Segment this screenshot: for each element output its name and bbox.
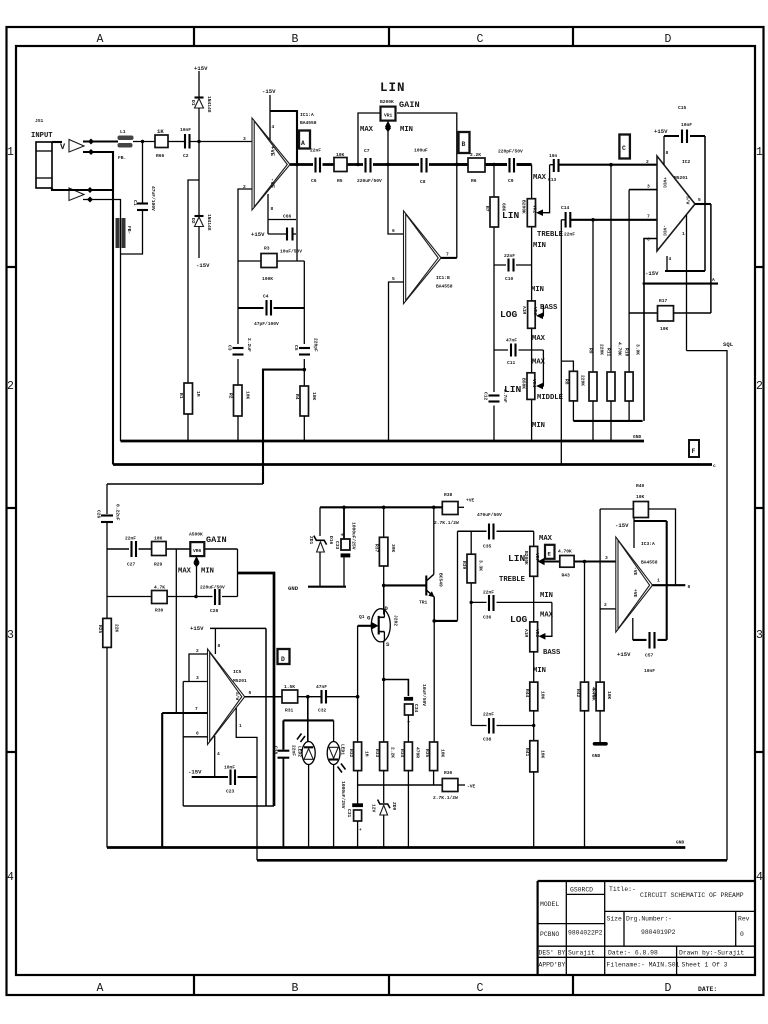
wire ring upper to vertical bbox=[83, 152, 113, 465]
resistor R10 bbox=[625, 372, 633, 401]
capacitor C2 bbox=[184, 134, 186, 149]
svg-text:MIN: MIN bbox=[533, 242, 546, 250]
capacitor C18 bbox=[278, 750, 290, 752]
svg-text:TR1: TR1 bbox=[419, 600, 428, 606]
svg-text:1: 1 bbox=[682, 231, 685, 237]
svg-text:+15V: +15V bbox=[194, 65, 208, 72]
IC1:A supply jog to feedback bbox=[270, 111, 297, 166]
potentiometer VR4 bbox=[527, 373, 535, 400]
resistor R44 bbox=[530, 682, 538, 711]
svg-text:10K: 10K bbox=[440, 749, 446, 758]
svg-text:4: 4 bbox=[7, 871, 14, 884]
svg-text:C11: C11 bbox=[507, 360, 516, 366]
op-amp IC1:A bbox=[252, 118, 290, 210]
potentiometer VR2 bbox=[527, 199, 535, 227]
svg-text:-15V: -15V bbox=[645, 270, 659, 277]
svg-text:Surajit: Surajit bbox=[568, 950, 595, 957]
TR1 emitter down bbox=[433, 597, 435, 621]
svg-text:VR4: VR4 bbox=[531, 379, 537, 388]
svg-text:C5: C5 bbox=[293, 345, 299, 351]
svg-text:VR7: VR7 bbox=[534, 553, 540, 562]
diode D1 bbox=[195, 96, 204, 98]
svg-text:R3: R3 bbox=[264, 246, 270, 252]
resistor R25 bbox=[103, 618, 112, 647]
resistor R9 bbox=[589, 372, 597, 401]
svg-text:F: F bbox=[692, 448, 696, 455]
row tick 2/3 right bbox=[755, 507, 763, 509]
svg-text:3: 3 bbox=[605, 555, 608, 561]
Q1 source down bbox=[383, 642, 385, 743]
svg-text:R6: R6 bbox=[471, 178, 477, 184]
svg-text:BASS: BASS bbox=[540, 304, 558, 312]
output net line y283.6 bbox=[643, 283, 718, 285]
R45 to gnd symbol bbox=[599, 711, 601, 742]
title block outline bbox=[538, 881, 755, 975]
C66 loop top bbox=[268, 219, 296, 221]
svg-text:ZD9: ZD9 bbox=[391, 802, 397, 811]
capacitor C7 bbox=[363, 154, 373, 176]
IC3 bypass loop bbox=[633, 521, 667, 640]
svg-text:220pF/50V: 220pF/50V bbox=[498, 149, 523, 155]
svg-text:+VE: +VE bbox=[632, 589, 638, 598]
node diamond ring lower bbox=[87, 197, 93, 203]
IC2 pin3 wire bbox=[629, 189, 657, 191]
zener ZD1 drop bbox=[319, 507, 321, 536]
IC5 input tie x183 bbox=[182, 682, 184, 807]
R40 right wire to output bbox=[648, 509, 675, 585]
svg-text:ZD1: ZD1 bbox=[308, 536, 314, 545]
svg-text:IC2: IC2 bbox=[682, 159, 691, 165]
IC2 bottom rail bbox=[665, 270, 705, 272]
svg-text:L1: L1 bbox=[120, 129, 126, 135]
IC1:B pin5 wire bbox=[389, 282, 404, 441]
svg-text:10K: 10K bbox=[336, 152, 345, 158]
svg-text:C18: C18 bbox=[273, 746, 279, 755]
junction dot R37 base bbox=[382, 506, 386, 510]
svg-text:39K: 39K bbox=[390, 544, 396, 553]
svg-text:R40: R40 bbox=[636, 483, 645, 489]
svg-text:3: 3 bbox=[243, 136, 246, 142]
svg-text:A: A bbox=[712, 277, 715, 283]
VR6 wiper junction bbox=[194, 595, 198, 599]
svg-text:APPD'BY: APPD'BY bbox=[539, 962, 566, 969]
IC3 output wire pin1 bbox=[653, 584, 686, 586]
junction dot C32/R32/Q1 gate bbox=[356, 695, 360, 699]
resistor R7 bbox=[490, 197, 499, 227]
svg-text:22K: 22K bbox=[114, 624, 120, 633]
VR3 wiper arrow bbox=[536, 313, 543, 320]
svg-text:10K: 10K bbox=[540, 750, 546, 759]
column tick A/B top bbox=[193, 27, 195, 46]
resistor R8 bbox=[569, 371, 577, 401]
IC5 loop bottom bbox=[183, 805, 274, 807]
shield bus y464.5 bbox=[113, 463, 712, 466]
svg-text:LOG: LOG bbox=[510, 614, 528, 625]
wire R1 to gnd bus bbox=[187, 414, 189, 441]
svg-text:1000uF/25V: 1000uF/25V bbox=[351, 522, 357, 550]
svg-text:R44: R44 bbox=[524, 689, 530, 698]
svg-text:-VCC: -VCC bbox=[662, 225, 668, 236]
wire C14 to IC2 pin7 bbox=[570, 219, 657, 221]
svg-text:2.7K.1/2W: 2.7K.1/2W bbox=[433, 795, 458, 801]
svg-text:3: 3 bbox=[756, 629, 763, 642]
svg-text:LIN: LIN bbox=[502, 210, 520, 221]
R37 drop bbox=[383, 507, 385, 537]
svg-text:Q1: Q1 bbox=[359, 614, 365, 620]
svg-text:10K: 10K bbox=[660, 326, 669, 332]
svg-text:IC3:A: IC3:A bbox=[641, 541, 655, 547]
mute bus lower bbox=[257, 859, 727, 862]
svg-text:GAIN: GAIN bbox=[206, 535, 227, 545]
wire R2 to gnd bbox=[237, 416, 239, 441]
svg-text:+VCC: +VCC bbox=[662, 177, 668, 188]
svg-text:MIN: MIN bbox=[531, 286, 544, 294]
svg-text:1: 1 bbox=[7, 146, 14, 159]
C4 bridge wire bbox=[238, 307, 304, 309]
wire main after B bbox=[457, 163, 532, 166]
C12 on R7 chain bbox=[488, 392, 500, 406]
jack contact triangle lower bbox=[69, 188, 84, 201]
IC5 pin7 gnd drop bbox=[161, 713, 163, 848]
svg-text:B: B bbox=[292, 33, 299, 46]
chain R44 to R41 bbox=[533, 711, 535, 741]
svg-text:A1M: A1M bbox=[523, 629, 529, 638]
wire R31 to C32 bbox=[298, 696, 321, 698]
svg-text:R25: R25 bbox=[97, 625, 103, 634]
resistor R29 bbox=[152, 542, 167, 556]
resistor R34 bbox=[404, 742, 412, 771]
capacitor C3 bbox=[232, 344, 244, 359]
tap junction to lower channel bbox=[303, 368, 307, 372]
svg-text:100K: 100K bbox=[262, 276, 273, 282]
svg-text:B200K: B200K bbox=[380, 99, 394, 105]
svg-text:A: A bbox=[97, 33, 104, 46]
IC5 pin8 stub bbox=[214, 628, 216, 654]
input jack inner line top bbox=[36, 150, 52, 152]
supply line y507 thick bbox=[320, 506, 442, 508]
svg-text:S/W: S/W bbox=[234, 692, 240, 701]
svg-text:+VE: +VE bbox=[269, 146, 276, 157]
capacitor C28 bbox=[213, 592, 223, 601]
svg-text:B50K: B50K bbox=[521, 378, 527, 389]
svg-text:B200K: B200K bbox=[521, 200, 527, 214]
wire C2 to op-amp pin3 bbox=[190, 141, 253, 143]
LED feed drop bbox=[307, 697, 309, 742]
svg-text:M5201: M5201 bbox=[233, 678, 247, 684]
svg-text:-15V: -15V bbox=[262, 88, 276, 95]
capacitor C27 bbox=[129, 545, 139, 553]
svg-text:22nF: 22nF bbox=[291, 745, 297, 756]
svg-text:DES' BY: DES' BY bbox=[539, 950, 566, 957]
node diamond ring upper bbox=[88, 149, 94, 155]
svg-text:Rev: Rev bbox=[738, 916, 750, 923]
resistor R33 bbox=[380, 742, 388, 771]
IC5 pin1 jog bbox=[236, 708, 257, 860]
capacitor C31 electrolytic bbox=[352, 803, 363, 807]
svg-text:7: 7 bbox=[647, 214, 650, 220]
VR6 wiper arrow bbox=[196, 562, 198, 597]
svg-text:6: 6 bbox=[392, 228, 395, 234]
diode D2 bbox=[195, 215, 204, 217]
svg-text:220K: 220K bbox=[599, 344, 605, 355]
resistor R38 bbox=[442, 502, 458, 515]
capacitor C10 bbox=[506, 262, 516, 274]
ferrite FB. bar bbox=[118, 143, 133, 148]
mosfet Q1 bbox=[358, 609, 391, 642]
svg-text:C: C bbox=[622, 145, 626, 152]
potentiometer VR3 bbox=[528, 301, 536, 328]
svg-text:Drawn by:-Surajit: Drawn by:-Surajit bbox=[679, 950, 744, 957]
svg-text:R66: R66 bbox=[156, 153, 165, 159]
C11 bridge wire bbox=[494, 349, 543, 351]
svg-text:BASS: BASS bbox=[543, 649, 561, 657]
gain wire y549 bbox=[107, 548, 238, 550]
svg-text:3.9K: 3.9K bbox=[635, 344, 641, 355]
potentiometer VR6 bbox=[190, 542, 204, 556]
svg-text:Size: Size bbox=[607, 916, 623, 923]
svg-text:10K: 10K bbox=[154, 536, 163, 542]
thick signal to IC5 bbox=[238, 573, 275, 806]
capacitor C26 bbox=[101, 514, 113, 516]
wire R66 to C2 bbox=[168, 141, 184, 143]
IC5 pin6 wire bbox=[183, 736, 207, 738]
wire R8 to y421 line bbox=[572, 401, 574, 421]
op-amp IC5 bbox=[208, 649, 245, 745]
capacitor C11 bbox=[508, 346, 519, 355]
wire R25 to bus bbox=[106, 647, 108, 847]
LED2 bbox=[297, 734, 315, 765]
wire lower ring down to ground chain bbox=[83, 200, 121, 442]
capacitor C9 bbox=[507, 154, 517, 176]
svg-text:A: A bbox=[97, 982, 104, 995]
svg-text:7: 7 bbox=[446, 252, 449, 258]
svg-text:C15: C15 bbox=[678, 105, 687, 111]
resistor R17 bbox=[629, 312, 657, 314]
wire VR1 right leg bbox=[397, 113, 457, 258]
svg-text:SQL: SQL bbox=[723, 341, 734, 348]
capacitor C15 bbox=[679, 131, 690, 141]
resistor R40 bbox=[633, 502, 648, 518]
svg-text:4: 4 bbox=[217, 751, 220, 757]
svg-text:1M: 1M bbox=[195, 391, 201, 397]
IC5 pin2 wire bbox=[189, 654, 208, 682]
IC2 pin4 stub bbox=[666, 256, 668, 271]
svg-text:C57: C57 bbox=[645, 653, 654, 659]
jack tip contact triangle upper bbox=[69, 140, 84, 153]
svg-text:c: c bbox=[713, 464, 716, 469]
svg-text:R38: R38 bbox=[444, 492, 453, 498]
lower channel input chain x107 bbox=[106, 484, 108, 514]
svg-text:JS1: JS1 bbox=[35, 118, 44, 124]
resistor R45 bbox=[596, 682, 604, 711]
wire R9 to gnd bbox=[592, 401, 594, 441]
capacitor C23 bbox=[228, 772, 238, 782]
wire jack to node upper bbox=[52, 141, 62, 143]
resistor R43 bbox=[560, 556, 574, 568]
capacitor C8 bbox=[419, 153, 429, 177]
svg-text:C66: C66 bbox=[283, 214, 292, 220]
resistor R41 bbox=[530, 741, 538, 772]
svg-text:1K: 1K bbox=[157, 128, 164, 135]
C35 line y531 bbox=[458, 530, 534, 532]
emitter branch to C35 leg bbox=[434, 620, 457, 622]
SQL wire bbox=[687, 351, 728, 861]
svg-text:10K: 10K bbox=[245, 391, 251, 400]
feedback chain x238 down bbox=[237, 261, 239, 385]
base node wire to TR1 bbox=[384, 584, 426, 586]
R7 tap chain x494 bbox=[493, 165, 495, 442]
svg-text:C36: C36 bbox=[483, 615, 492, 621]
inductor L1 bar bbox=[118, 136, 134, 141]
svg-text:D: D bbox=[281, 656, 285, 663]
capacitor C1 bbox=[137, 202, 148, 204]
svg-text:D16: D16 bbox=[328, 536, 334, 545]
IC5 pin7 wire thick bbox=[162, 712, 207, 714]
svg-text:D2: D2 bbox=[190, 218, 196, 224]
svg-text:A: A bbox=[301, 140, 305, 147]
IC1:A pin2 wire bbox=[238, 189, 252, 261]
R39 chain x471 bbox=[470, 531, 472, 725]
column tick A/B bottom bbox=[193, 975, 195, 995]
svg-text:220pF: 220pF bbox=[313, 338, 319, 352]
svg-text:R42: R42 bbox=[575, 689, 581, 698]
svg-text:3: 3 bbox=[647, 184, 650, 190]
svg-text:3: 3 bbox=[196, 675, 199, 681]
svg-text:10nF: 10nF bbox=[180, 127, 191, 133]
main line junction C9 out bbox=[531, 165, 533, 442]
svg-text:C7: C7 bbox=[364, 148, 370, 154]
svg-text:R9: R9 bbox=[588, 348, 594, 354]
resistor R35 bbox=[430, 742, 438, 771]
svg-text:Title:-: Title:- bbox=[609, 886, 636, 893]
IC2 pin6 wire bbox=[644, 239, 657, 421]
resistor R32 bbox=[354, 742, 362, 771]
potentiometer VR8 bbox=[530, 622, 538, 652]
VR2 wiper arrow bbox=[536, 209, 543, 216]
svg-text:6: 6 bbox=[196, 731, 199, 737]
svg-text:470R: 470R bbox=[415, 747, 421, 758]
svg-text:R31: R31 bbox=[285, 708, 294, 714]
svg-text:R45: R45 bbox=[591, 689, 597, 698]
svg-text:INPUT: INPUT bbox=[31, 132, 53, 140]
capacitor C13 bbox=[550, 164, 554, 166]
C36 line y602 bbox=[471, 601, 552, 603]
row tick 1/2 left bbox=[7, 266, 17, 268]
VR4 wiper arrow bbox=[536, 383, 543, 390]
junction dot input clamp bbox=[197, 140, 200, 143]
svg-text:R29: R29 bbox=[154, 562, 163, 568]
svg-text:220K: 220K bbox=[580, 375, 586, 386]
wire L1 to R66 bbox=[133, 141, 155, 143]
svg-text:R32: R32 bbox=[348, 749, 354, 758]
svg-text:8: 8 bbox=[218, 643, 221, 649]
svg-text:2.2uF: 2.2uF bbox=[246, 338, 252, 352]
svg-text:PCBNO: PCBNO bbox=[540, 931, 559, 938]
capacitor C66 bbox=[286, 228, 288, 241]
zener ZD2 bbox=[378, 800, 390, 815]
svg-text:10n: 10n bbox=[549, 153, 558, 159]
svg-text:4.7K: 4.7K bbox=[154, 585, 165, 591]
svg-text:-VE: -VE bbox=[632, 567, 638, 576]
svg-text:IC1:A: IC1:A bbox=[300, 112, 314, 118]
resistor R5 bbox=[334, 158, 347, 172]
tone chain x533 bbox=[533, 531, 535, 546]
IC2 triangle bbox=[657, 156, 695, 251]
R35 to rail bbox=[433, 771, 435, 785]
resistor R39 bbox=[467, 554, 476, 583]
svg-text:BA4558: BA4558 bbox=[641, 560, 658, 566]
R9 drop from pin7 net bbox=[592, 220, 594, 372]
svg-text:100uF: 100uF bbox=[414, 148, 428, 154]
IC5 output wire pin5 bbox=[245, 696, 282, 698]
IC2 output drop bbox=[710, 204, 712, 313]
svg-text:0: 0 bbox=[740, 931, 744, 938]
chain VR7 to VR8 bbox=[533, 576, 535, 622]
gnd bus lower bbox=[107, 846, 685, 849]
svg-text:VR6: VR6 bbox=[193, 548, 202, 554]
R11 drop from pin2 net bbox=[610, 165, 612, 372]
svg-text:1000uF/25V: 1000uF/25V bbox=[340, 781, 346, 809]
junction B node bbox=[455, 163, 459, 167]
resistor R6 bbox=[468, 158, 485, 172]
R36 -VE stub bbox=[458, 784, 465, 786]
pin3 drop chain x629 bbox=[628, 190, 630, 372]
svg-text:22nF: 22nF bbox=[125, 536, 136, 542]
row tick 1/2 right bbox=[755, 266, 763, 268]
svg-text:B: B bbox=[462, 141, 466, 148]
svg-text:R35: R35 bbox=[424, 749, 430, 758]
svg-text:C12: C12 bbox=[483, 392, 489, 401]
bias rail y785 bbox=[358, 784, 443, 786]
junction dot C36 wire bbox=[470, 601, 473, 604]
svg-text:C13: C13 bbox=[548, 177, 557, 183]
row tick 2/3 left bbox=[7, 507, 17, 509]
svg-text:LED2: LED2 bbox=[297, 746, 303, 757]
svg-text:C6: C6 bbox=[311, 178, 317, 184]
wire R10 to y421 bbox=[628, 401, 630, 421]
svg-text:2: 2 bbox=[646, 159, 649, 165]
svg-text:MIN: MIN bbox=[201, 568, 214, 576]
svg-text:R2: R2 bbox=[228, 393, 234, 399]
svg-text:3: 3 bbox=[7, 629, 14, 642]
VR7 wiper arrow bbox=[538, 558, 545, 566]
wire D2 to -15V bbox=[198, 227, 200, 259]
LED2 to gnd bbox=[308, 765, 310, 848]
svg-text:MODEL: MODEL bbox=[540, 901, 559, 908]
IC2 pin1 mute line bbox=[686, 215, 688, 351]
svg-text:C32: C32 bbox=[318, 708, 327, 714]
node E box bbox=[545, 545, 555, 559]
svg-text:TREBLE: TREBLE bbox=[537, 231, 564, 239]
svg-text:C26: C26 bbox=[96, 510, 102, 519]
VR8 wiper arrow bbox=[538, 633, 545, 640]
svg-text:LIN: LIN bbox=[380, 81, 406, 95]
svg-text:1M: 1M bbox=[364, 751, 370, 757]
svg-text:R8: R8 bbox=[564, 379, 570, 385]
svg-text:C38: C38 bbox=[483, 737, 492, 743]
svg-text:2.2K: 2.2K bbox=[390, 747, 396, 758]
svg-text:MAX: MAX bbox=[532, 335, 546, 343]
VR6 right leg bbox=[237, 549, 239, 597]
svg-text:R11: R11 bbox=[606, 348, 612, 357]
svg-text:+15V: +15V bbox=[251, 231, 265, 238]
wire R4 to gnd bbox=[303, 416, 305, 441]
svg-text:LIN: LIN bbox=[508, 553, 526, 564]
svg-text:2: 2 bbox=[756, 380, 763, 393]
gnd bus upper bbox=[121, 440, 645, 443]
svg-text:BA4558: BA4558 bbox=[300, 120, 317, 126]
IC2 right rail bbox=[704, 136, 706, 271]
